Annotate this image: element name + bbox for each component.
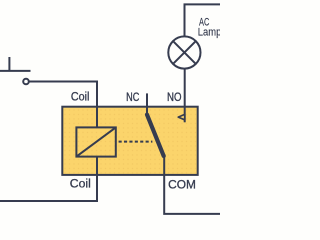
lamp L1 cross <box>173 41 196 64</box>
svg-text:COM: COM <box>168 179 196 191</box>
coil box diagonal <box>76 127 115 156</box>
svg-text:Lamp: Lamp <box>198 27 220 39</box>
wire: lamp to NO terminal <box>184 69 186 123</box>
pushbutton S1 actuator bar <box>0 70 31 72</box>
coil box <box>76 127 115 156</box>
NO contact triangle <box>178 114 185 119</box>
relay switch arm <box>147 115 164 156</box>
wire: top right feed to lamp <box>185 4 221 36</box>
svg-text:NO: NO <box>167 92 182 104</box>
svg-text:Coil: Coil <box>71 92 90 104</box>
wire: coil bottom terminal inside relay <box>96 157 98 175</box>
coil-arm dashed link <box>119 141 153 143</box>
wire: coil top terminal inside relay <box>96 107 98 128</box>
wire: NC terminal stub <box>146 93 148 115</box>
relay K1 body <box>62 107 197 175</box>
wire: switch to relay coil top corner <box>29 82 97 107</box>
wire: coil bottom lead out to left edge <box>0 175 97 201</box>
pushbutton S1 plunger <box>8 57 10 71</box>
svg-text:NC: NC <box>126 92 139 104</box>
svg-text:Coil: Coil <box>70 179 91 191</box>
lamp L1 circle <box>168 36 200 68</box>
pushbutton S1 contact terminal <box>23 79 29 85</box>
wire: COM terminal down and out to right edge <box>164 154 220 214</box>
